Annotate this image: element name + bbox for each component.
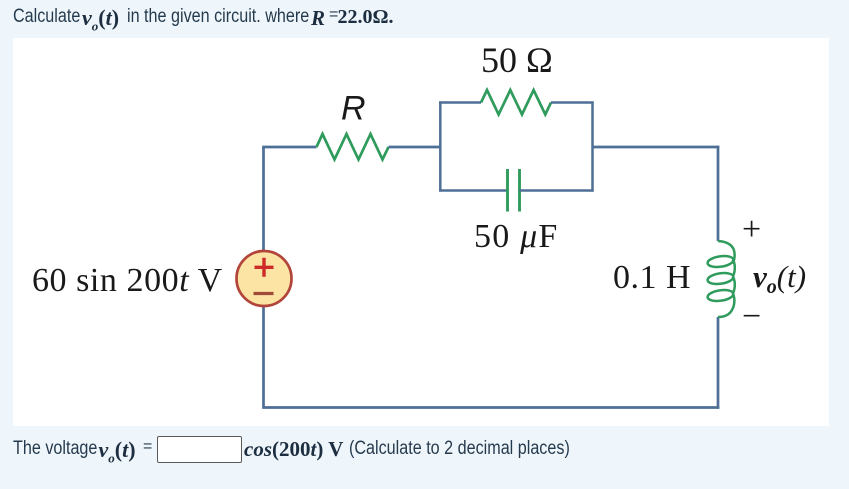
capacitor C 50uF left plate [506,169,509,212]
inductor loop ring 3 [707,289,734,303]
wire: box bottom edge left segment [439,189,507,192]
wire: right vertical from inductor top up to top-right corner [717,146,720,241]
wire: top horizontal from top-left corner to resistor R [262,146,316,149]
svg-text:R: R [341,90,366,128]
bottom: vo(t) [99,437,136,466]
wire: bottom horizontal [262,406,719,409]
title: in the given circuit. where [127,6,309,28]
wire: box top edge right segment [551,101,594,104]
title: vo(t) [82,5,119,34]
svg-text:−: − [742,298,761,335]
svg-text:0.1 H: 0.1 H [613,259,691,296]
wire: left vertical from top-left corner down to source top [262,147,265,251]
bottom: equals [143,438,152,456]
wire: from resistor R to parallel box left [389,146,442,149]
resistor 50 ohm zigzag [481,90,551,115]
title: 22.0 Ohm [338,6,394,29]
wire: right vertical from bottom-right corner up to inductor bottom [717,317,720,409]
bottom: The voltage [13,438,97,460]
wire: from box right edge to top-right corner [593,146,720,149]
inductor loop ring 1 [707,255,734,269]
svg-text:60 sin 200t V: 60 sin 200t V [32,262,223,299]
title: Calculate [13,6,80,28]
wire: box bottom edge right segment [520,189,594,192]
bottom: cos(200t) V [244,437,343,462]
bottom: calculate note [349,438,570,460]
svg-text:vo(t): vo(t) [753,259,806,298]
wire: left vertical from source bottom to bottom-left corner [262,307,265,408]
svg-text:50 μF: 50 μF [474,218,559,255]
capacitor C 50uF right plate [518,169,521,212]
title: equals [329,6,338,24]
resistor R zigzag [317,134,389,160]
voltage source minus sign [254,292,274,295]
voltage source VS circle [237,251,292,306]
svg-text:+: + [742,211,761,248]
inductor L 0.1H coil [718,241,735,317]
wire: parallel box left edge [439,101,442,191]
svg-text:50 Ω: 50 Ω [481,40,553,80]
wire: box top edge left segment [439,101,481,104]
white circuit panel [13,38,829,426]
wire: parallel box right edge [591,101,594,191]
title: R [311,6,325,31]
voltage source plus sign [255,258,274,277]
bottom: answer input box [157,436,242,463]
inductor loop ring 2 [707,272,734,286]
